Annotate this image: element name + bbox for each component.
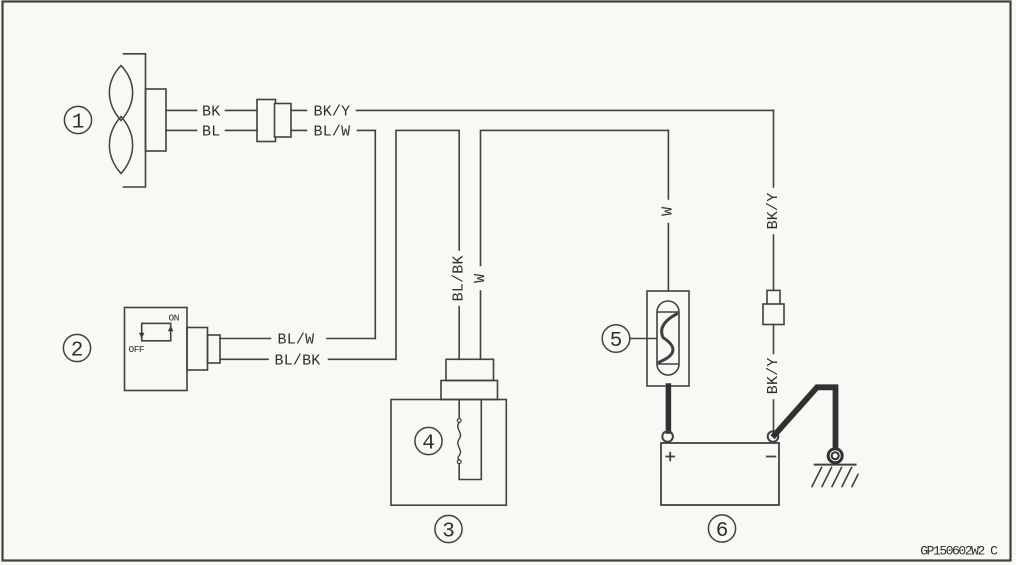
wire BK/Y horizontal top [291, 109, 774, 111]
svg-text:W: W [472, 274, 489, 283]
svg-text:BL/BK: BL/BK [451, 255, 468, 301]
wire BL/W from switch [220, 338, 375, 340]
wire W vertical down to fuse [667, 130, 669, 291]
wire W vertical from fan switch [481, 130, 669, 359]
connector (fan) right half [275, 104, 292, 138]
switch connector rect 1 [187, 328, 208, 371]
ground eyelet inner [832, 452, 839, 459]
wire BL/BK from switch [220, 358, 396, 360]
fuse capsule [657, 301, 679, 375]
wire BL/BK vertical down to fan switch [458, 130, 460, 359]
wire BL/BK vertical up [396, 130, 459, 359]
svg-text:6: 6 [716, 520, 729, 543]
callout circle 6 [708, 515, 735, 542]
wire BK/Y vertical right [773, 110, 775, 290]
callout circle 1 [64, 106, 91, 133]
callout circle 5 [602, 325, 630, 353]
fan switch inner left conductor [458, 400, 460, 419]
svg-text:BK/Y: BK/Y [765, 193, 782, 230]
callout circle 3 [435, 515, 462, 542]
svg-text:BK/Y: BK/Y [765, 357, 782, 394]
svg-text:3: 3 [442, 520, 455, 543]
fan switch box (component 3) [391, 400, 506, 506]
svg-text:BL/W: BL/W [278, 332, 315, 349]
fan switch inner U tube [459, 400, 481, 480]
minus sign [767, 456, 776, 458]
svg-text:BL: BL [202, 123, 220, 140]
thick wire fuse to battery plus [666, 386, 672, 431]
svg-text:W: W [659, 207, 676, 216]
wire BL from motor [166, 129, 257, 131]
svg-text:5: 5 [610, 330, 623, 353]
svg-text:OFF: OFF [129, 344, 145, 355]
fan switch connector rect lower [441, 381, 498, 400]
svg-text:BK: BK [202, 103, 220, 120]
wire BK from motor [166, 109, 257, 111]
connector (fan) left half [257, 100, 276, 142]
battery box (component 6) [661, 443, 779, 505]
switch connector rect 2 [208, 335, 221, 363]
svg-text:2: 2 [71, 339, 84, 362]
ground hatching [812, 468, 858, 487]
plus sign [666, 453, 674, 461]
callout circle 4 [415, 427, 442, 454]
ground surface line [815, 464, 856, 466]
wire BL/W from connector [291, 129, 375, 131]
contact circle lower [457, 460, 461, 464]
svg-text:GP150602W2 C: GP150602W2 C [920, 544, 998, 559]
ground eyelet outer [828, 449, 842, 463]
switch toggle diagram [142, 323, 171, 340]
fuse outer box (component 5) [647, 291, 689, 386]
fan switch connector rect upper [446, 359, 494, 380]
svg-text:BK/Y: BK/Y [314, 103, 351, 120]
fan motor body [146, 89, 167, 151]
fuse element S-curve [660, 314, 677, 362]
svg-text:4: 4 [422, 432, 435, 455]
battery plus terminal [662, 431, 673, 442]
battery minus terminal [768, 431, 779, 442]
fan shroud bracket [124, 54, 146, 187]
svg-text:1: 1 [72, 111, 85, 134]
svg-text:BL/W: BL/W [314, 123, 351, 140]
switch body [125, 308, 188, 391]
contact circle upper [457, 419, 461, 423]
callout circle 2 [63, 334, 90, 361]
svg-text:BL/BK: BL/BK [275, 352, 321, 369]
wire BK/Y below connector [773, 325, 775, 432]
leader line circle 5 [630, 338, 657, 340]
svg-text:ON: ON [169, 313, 179, 324]
BK/Y inline connector lower rect [763, 304, 784, 325]
BK/Y inline connector upper rect [767, 290, 780, 308]
thermal wavy element [458, 422, 461, 460]
ground strap thick [775, 387, 836, 447]
wire BL/W vertical [374, 130, 376, 338]
fan blades [109, 66, 132, 174]
